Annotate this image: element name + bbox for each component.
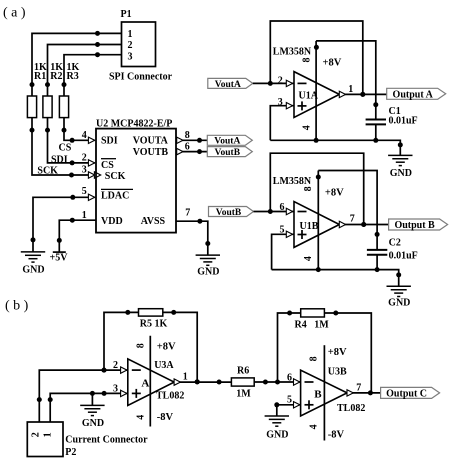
resistor R1 1K xyxy=(27,62,47,118)
svg-text:+5V: +5V xyxy=(50,252,69,263)
wire U3B power pins vertical xyxy=(323,345,325,440)
svg-text:1M: 1M xyxy=(314,320,329,331)
svg-text:1: 1 xyxy=(348,84,353,95)
section label (a) xyxy=(3,6,26,21)
svg-text:0.01uF: 0.01uF xyxy=(389,116,418,127)
svg-text:TL082: TL082 xyxy=(156,390,184,401)
svg-text:1: 1 xyxy=(82,210,87,221)
ground GND left xyxy=(21,252,45,275)
svg-text:( a ): ( a ) xyxy=(3,6,26,21)
svg-text:GND: GND xyxy=(266,430,288,441)
capacitor C1 0.01uF xyxy=(366,106,418,143)
U2 pin name VOUTB xyxy=(133,147,169,158)
svg-text:GND: GND xyxy=(197,267,219,278)
IC U2 MCP4822-E/P xyxy=(96,118,176,232)
svg-text:-8V: -8V xyxy=(328,429,345,440)
svg-text:1: 1 xyxy=(128,29,133,40)
wire U1A output xyxy=(339,84,386,97)
svg-text:C2: C2 xyxy=(389,238,401,249)
wire P2 pin 1 to U3A pin 3 xyxy=(48,384,128,423)
svg-text:8: 8 xyxy=(136,343,147,348)
svg-text:R4: R4 xyxy=(295,320,307,331)
svg-text:SCK: SCK xyxy=(37,166,58,177)
U2 pin name VDD xyxy=(101,216,123,227)
wire U2 pin 6 VOUTB to flag xyxy=(176,142,207,155)
svg-text:Output A: Output A xyxy=(393,89,434,100)
svg-text:1: 1 xyxy=(43,432,54,437)
wire VoutB to U1B pin 6 xyxy=(254,202,295,215)
svg-text:CS: CS xyxy=(59,142,72,153)
ground GND under U3B pin 5 xyxy=(265,416,289,441)
svg-text:R6: R6 xyxy=(237,366,249,377)
svg-text:VoutA: VoutA xyxy=(215,80,241,90)
ground GND right of C2 xyxy=(387,286,411,308)
wire U1A feedback loop xyxy=(270,21,365,97)
svg-text:4: 4 xyxy=(303,256,314,261)
wire net SDI: R2 to U2 pin 2 xyxy=(45,118,95,167)
svg-text:VOUTA: VOUTA xyxy=(133,135,169,146)
wire U1A ground rail xyxy=(270,138,403,156)
svg-text:P2: P2 xyxy=(65,447,76,458)
resistor R5 1K xyxy=(139,309,168,330)
node Output A flag xyxy=(387,88,446,100)
svg-text:SDI: SDI xyxy=(51,154,68,165)
svg-text:2: 2 xyxy=(128,40,133,51)
svg-text:8: 8 xyxy=(303,186,314,191)
svg-text:R3: R3 xyxy=(67,71,79,82)
wire U1B +8V rail xyxy=(316,171,380,250)
wire VDD to +5V xyxy=(57,210,96,252)
svg-text:Output C: Output C xyxy=(386,388,427,399)
svg-text:Output B: Output B xyxy=(394,220,435,231)
resistor R3 1K xyxy=(59,62,79,118)
svg-text:0.01uF: 0.01uF xyxy=(389,251,418,262)
wire U1A pin 3 to ground rail xyxy=(270,97,294,141)
svg-text:VoutB: VoutB xyxy=(215,148,241,158)
svg-text:-8V: -8V xyxy=(157,412,174,423)
section label (b) xyxy=(5,299,29,314)
wire U1B output xyxy=(339,213,388,227)
svg-text:LM358N: LM358N xyxy=(273,47,312,58)
U2 pin name AVSS xyxy=(141,216,166,227)
wire net CS: R3 to U2 pin 4 xyxy=(59,118,95,154)
wire P1 pin3 to R3 xyxy=(62,52,122,96)
svg-text:GND: GND xyxy=(390,168,412,179)
svg-text:8: 8 xyxy=(301,58,312,63)
wire U1B ground rail xyxy=(272,267,402,286)
svg-text:1M: 1M xyxy=(236,389,251,400)
U2 pin name LDAC (active low) xyxy=(101,189,133,201)
wire U1B pin 5 to ground rail xyxy=(272,224,294,269)
ground GND right of C1 xyxy=(388,155,412,179)
wire U3A feedback loop xyxy=(102,310,200,385)
svg-text:4: 4 xyxy=(309,424,320,429)
node VoutB flag feeding U1B xyxy=(209,207,254,218)
wire U1A +8V rail xyxy=(314,41,378,120)
node VoutA flag (pin 8) xyxy=(207,135,252,146)
wire U2 pin 8 VOUTA to flag xyxy=(176,130,207,144)
wire U2 pin 7 AVSS to ground xyxy=(176,207,210,255)
svg-text:3: 3 xyxy=(278,97,283,108)
wire U3B feedback loop xyxy=(278,311,372,393)
svg-text:7: 7 xyxy=(350,213,355,224)
svg-text:3: 3 xyxy=(82,164,87,175)
svg-text:6: 6 xyxy=(185,142,190,153)
wire U3B output xyxy=(347,383,381,396)
wire P2 pin 2 to U3A pin 2 xyxy=(37,360,128,422)
svg-text:5: 5 xyxy=(280,224,285,235)
wire VoutA to U1A pin 2 xyxy=(253,75,294,86)
svg-text:LM358N: LM358N xyxy=(273,176,312,187)
svg-text:4: 4 xyxy=(82,130,87,141)
svg-text:R1: R1 xyxy=(34,71,46,82)
wire LDAC to ground xyxy=(31,186,95,252)
wire U1A power pins vertical xyxy=(315,41,317,140)
svg-text:GND: GND xyxy=(82,418,104,429)
svg-text:U3A: U3A xyxy=(154,360,174,371)
svg-text:( b ): ( b ) xyxy=(5,299,29,314)
svg-text:2: 2 xyxy=(31,432,42,437)
power +5V xyxy=(50,252,69,263)
svg-text:TL082: TL082 xyxy=(337,403,365,414)
ground GND under U3A pin 3 xyxy=(80,405,104,429)
svg-text:U3B: U3B xyxy=(328,367,347,378)
svg-text:2: 2 xyxy=(82,153,87,164)
wire U3A output to R6 xyxy=(174,371,231,385)
U2 pin name CS (active low) xyxy=(101,159,116,171)
svg-text:5: 5 xyxy=(287,394,292,405)
svg-text:+8V: +8V xyxy=(323,57,342,68)
op-amp U3B TL082 xyxy=(301,347,366,440)
connector P2 Current Connector xyxy=(27,422,148,458)
svg-text:R2: R2 xyxy=(50,71,62,82)
node VoutB flag (pin 6) xyxy=(207,147,252,158)
svg-text:SDI: SDI xyxy=(101,135,118,146)
capacitor C2 0.01uF xyxy=(367,238,418,273)
svg-text:5: 5 xyxy=(82,186,87,197)
svg-text:U1A: U1A xyxy=(299,91,319,102)
wire pin 3 ground tap xyxy=(91,393,93,405)
wire U3B pin 5 to ground xyxy=(274,394,300,416)
svg-text:4: 4 xyxy=(301,125,312,130)
svg-text:VoutB: VoutB xyxy=(216,208,242,218)
connector P1 xyxy=(109,9,173,83)
svg-text:1: 1 xyxy=(183,371,188,382)
U2 pin name SDI xyxy=(101,135,118,146)
svg-text:VOUTB: VOUTB xyxy=(133,147,169,158)
svg-text:8: 8 xyxy=(309,356,320,361)
op-amp U1A xyxy=(273,47,342,131)
svg-text:3: 3 xyxy=(113,384,118,395)
svg-text:2: 2 xyxy=(113,360,118,371)
svg-text:+8V: +8V xyxy=(325,187,344,198)
wire net SCK: R1 to U2 pin 3 xyxy=(30,118,101,179)
svg-text:P1: P1 xyxy=(121,9,132,20)
svg-text:LDAC: LDAC xyxy=(101,191,129,202)
ground GND under AVSS xyxy=(196,255,220,277)
svg-text:6: 6 xyxy=(280,202,285,213)
svg-text:3: 3 xyxy=(128,51,133,62)
node Output B flag xyxy=(389,219,448,231)
svg-text:SPI Connector: SPI Connector xyxy=(109,72,173,83)
svg-text:6: 6 xyxy=(287,373,292,384)
U2 pin name SCK xyxy=(105,171,126,182)
resistor R2 1K xyxy=(43,62,63,118)
wire P1 pin2 to R2 xyxy=(45,42,122,96)
svg-text:Current Connector: Current Connector xyxy=(65,435,148,446)
svg-text:2: 2 xyxy=(278,75,283,86)
node VoutA flag feeding U1A xyxy=(208,78,253,89)
svg-text:GND: GND xyxy=(388,297,410,308)
svg-text:A: A xyxy=(141,377,149,389)
svg-text:AVSS: AVSS xyxy=(141,216,166,227)
svg-text:VDD: VDD xyxy=(101,216,123,227)
svg-text:GND: GND xyxy=(22,264,44,275)
svg-text:8: 8 xyxy=(185,130,190,141)
wire U1B power pins vertical xyxy=(317,171,319,270)
svg-text:R5 1K: R5 1K xyxy=(140,319,168,330)
resistor R4 1M xyxy=(295,309,330,331)
svg-text:7: 7 xyxy=(356,383,361,394)
svg-text:+8V: +8V xyxy=(328,347,347,358)
resistor R6 1M xyxy=(231,366,254,400)
wire P1 pin1 to R1 xyxy=(30,31,122,96)
op-amp U1B xyxy=(273,176,344,261)
wire U1B feedback loop xyxy=(270,153,366,227)
svg-text:4: 4 xyxy=(136,415,147,420)
svg-text:U2 MCP4822-E/P: U2 MCP4822-E/P xyxy=(96,118,172,129)
svg-text:VoutA: VoutA xyxy=(214,137,240,147)
svg-text:+8V: +8V xyxy=(157,341,176,352)
U2 pin name VOUTA xyxy=(133,135,169,146)
svg-text:B: B xyxy=(314,389,322,401)
svg-text:CS: CS xyxy=(101,160,114,171)
svg-text:SCK: SCK xyxy=(105,171,126,182)
svg-text:U1B: U1B xyxy=(300,221,319,232)
node Output C flag xyxy=(381,387,440,399)
op-amp U3A TL082 xyxy=(128,341,185,423)
wire U3A power pins vertical xyxy=(149,336,151,427)
wire R6 to U3B pin 6 xyxy=(254,373,300,386)
svg-text:7: 7 xyxy=(185,207,190,218)
